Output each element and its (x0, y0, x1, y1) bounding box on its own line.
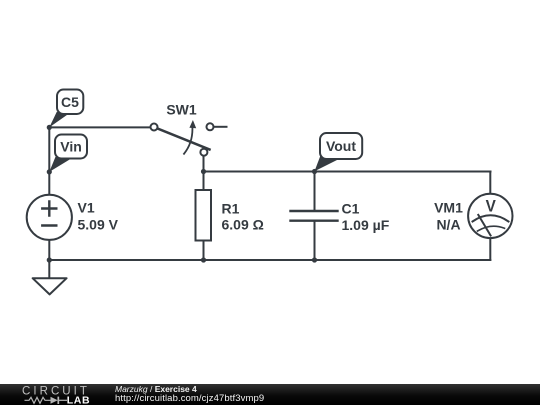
wire bottom rail (49, 259, 490, 261)
wire top rail from node C5 to SW1 left terminal (49, 126, 150, 128)
wire left vertical from C5 node to V1 top (48, 127, 50, 195)
junction SW1 common / mid rail (201, 169, 206, 174)
junction node Vout (312, 169, 317, 174)
svg-text:LAB: LAB (67, 395, 90, 405)
wire C1 bottom (314, 221, 316, 260)
svg-text:R1: R1 (222, 201, 240, 217)
resistor R1 (196, 190, 212, 241)
label V inside VM1 (486, 197, 497, 216)
capacitor C1 (291, 211, 338, 221)
svg-text:1.09 µF: 1.09 µF (342, 217, 390, 233)
junction node C5/top-rail (47, 125, 52, 130)
svg-text:C5: C5 (61, 94, 79, 110)
credit text (115, 385, 264, 403)
footer bar (0, 384, 540, 405)
wire SW1 right terminal stub (214, 126, 227, 128)
wire VM1 top (489, 172, 491, 194)
svg-text:Vout: Vout (326, 138, 356, 154)
ground (33, 278, 67, 294)
svg-text:SW1: SW1 (166, 102, 197, 118)
svg-text:C1: C1 (342, 201, 360, 217)
junction node Vin (47, 169, 52, 174)
junction R1 bottom rail (201, 257, 206, 262)
svg-text:V: V (486, 197, 497, 216)
label R1 value (222, 201, 264, 233)
voltmeter VM1 (468, 194, 512, 238)
voltage source V1 (27, 195, 72, 240)
node label C5 (49, 90, 83, 128)
wire middle rail from SW1 common to VM1 (204, 171, 491, 173)
wire SW1 common down to R1 top (203, 156, 205, 191)
label V1 value (78, 200, 119, 233)
wire V1 bottom to ground rail (48, 240, 50, 261)
node label Vout (315, 133, 363, 171)
wire R1 bottom to bottom rail (203, 241, 205, 261)
switch SW1 (151, 120, 214, 156)
wire VM1 bottom (489, 238, 491, 260)
node label Vin (49, 135, 87, 172)
svg-text:N/A: N/A (436, 217, 460, 233)
svg-text:V1: V1 (78, 200, 95, 216)
CircuitLab logo (22, 386, 90, 405)
wire ground stub (48, 260, 50, 278)
svg-text:VM1: VM1 (434, 200, 463, 216)
svg-text:5.09 V: 5.09 V (78, 217, 119, 233)
wire C1 top (314, 172, 316, 212)
junction C1 bottom rail (312, 257, 317, 262)
svg-text:Vin: Vin (60, 138, 82, 154)
label VM1 value (434, 200, 463, 233)
label C1 value (342, 201, 390, 234)
label SW1 (166, 102, 197, 118)
svg-text:6.09 Ω: 6.09 Ω (222, 217, 264, 233)
junction V1 bottom rail (47, 257, 52, 262)
